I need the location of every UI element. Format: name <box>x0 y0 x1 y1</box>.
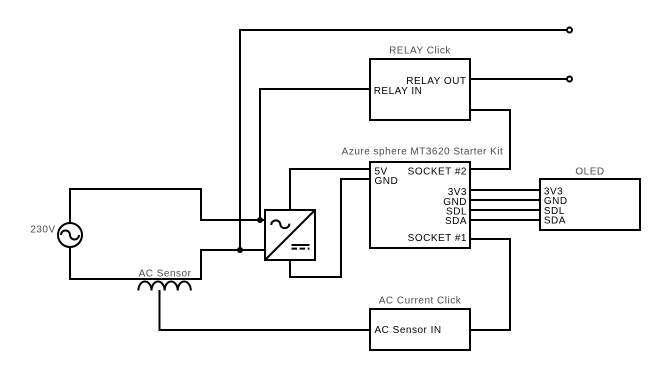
wire: converter DC- to GND pin <box>290 179 370 277</box>
wire: neutral line to terminal J1 <box>240 30 567 250</box>
wire: live line to RELAY IN <box>260 89 370 220</box>
junction dot on AC input 2 <box>237 247 243 253</box>
terminal J1 <box>567 28 572 33</box>
junction dot on AC input 1 <box>257 217 263 223</box>
svg-text:SOCKET #2: SOCKET #2 <box>408 166 467 177</box>
wire: source top to converter AC input 1 <box>70 189 264 223</box>
wire: SDA to OLED SDA <box>470 219 540 221</box>
svg-text:SOCKET #1: SOCKET #1 <box>408 233 467 244</box>
svg-text:RELAY IN: RELAY IN <box>374 86 423 97</box>
svg-text:SDA: SDA <box>445 216 467 227</box>
AC Current Click box <box>370 309 470 350</box>
wire: SOCKET #1 to AC Current Click output <box>470 239 510 330</box>
svg-text:RELAY Click: RELAY Click <box>389 46 451 57</box>
AC source V1 230V <box>58 223 82 247</box>
svg-text:Azure sphere MT3620 Starter Ki: Azure sphere MT3620 Starter Kit <box>342 147 504 158</box>
wire: relay output 2 to SOCKET #2 <box>470 110 510 169</box>
wire: converter DC+ to 5V pin <box>290 169 370 210</box>
converter U2 AC/DC box <box>265 210 315 260</box>
svg-text:GND: GND <box>375 176 399 187</box>
svg-text:230V: 230V <box>30 224 55 235</box>
RELAY Click box <box>370 59 470 120</box>
wire: SDL to OLED SDL <box>470 209 540 211</box>
wire: RELAY OUT to terminal J2 <box>470 78 567 80</box>
Azure Sphere MT3620 Starter Kit box <box>370 162 470 248</box>
wire: inductor tap to AC Sensor IN <box>160 290 371 330</box>
svg-text:AC Current Click: AC Current Click <box>379 296 462 307</box>
terminal J2 <box>567 77 572 82</box>
converter DC symbol solid line <box>292 244 310 246</box>
wire: GND to OLED GND <box>470 199 540 201</box>
converter DC symbol dashed line <box>292 248 310 250</box>
inductor L1 AC sensor coil <box>138 282 190 291</box>
svg-text:OLED: OLED <box>575 166 604 177</box>
converter diagonal <box>265 210 315 260</box>
wire: source bottom through AC sensor to converter AC input 2 <box>70 247 264 279</box>
OLED box <box>540 179 640 230</box>
svg-text:AC Sensor: AC Sensor <box>139 268 192 279</box>
converter AC symbol <box>271 220 289 228</box>
svg-text:SDA: SDA <box>544 215 566 226</box>
wire: 3V3 to OLED 3V3 <box>470 189 540 191</box>
svg-text:AC Sensor IN: AC Sensor IN <box>375 325 442 336</box>
